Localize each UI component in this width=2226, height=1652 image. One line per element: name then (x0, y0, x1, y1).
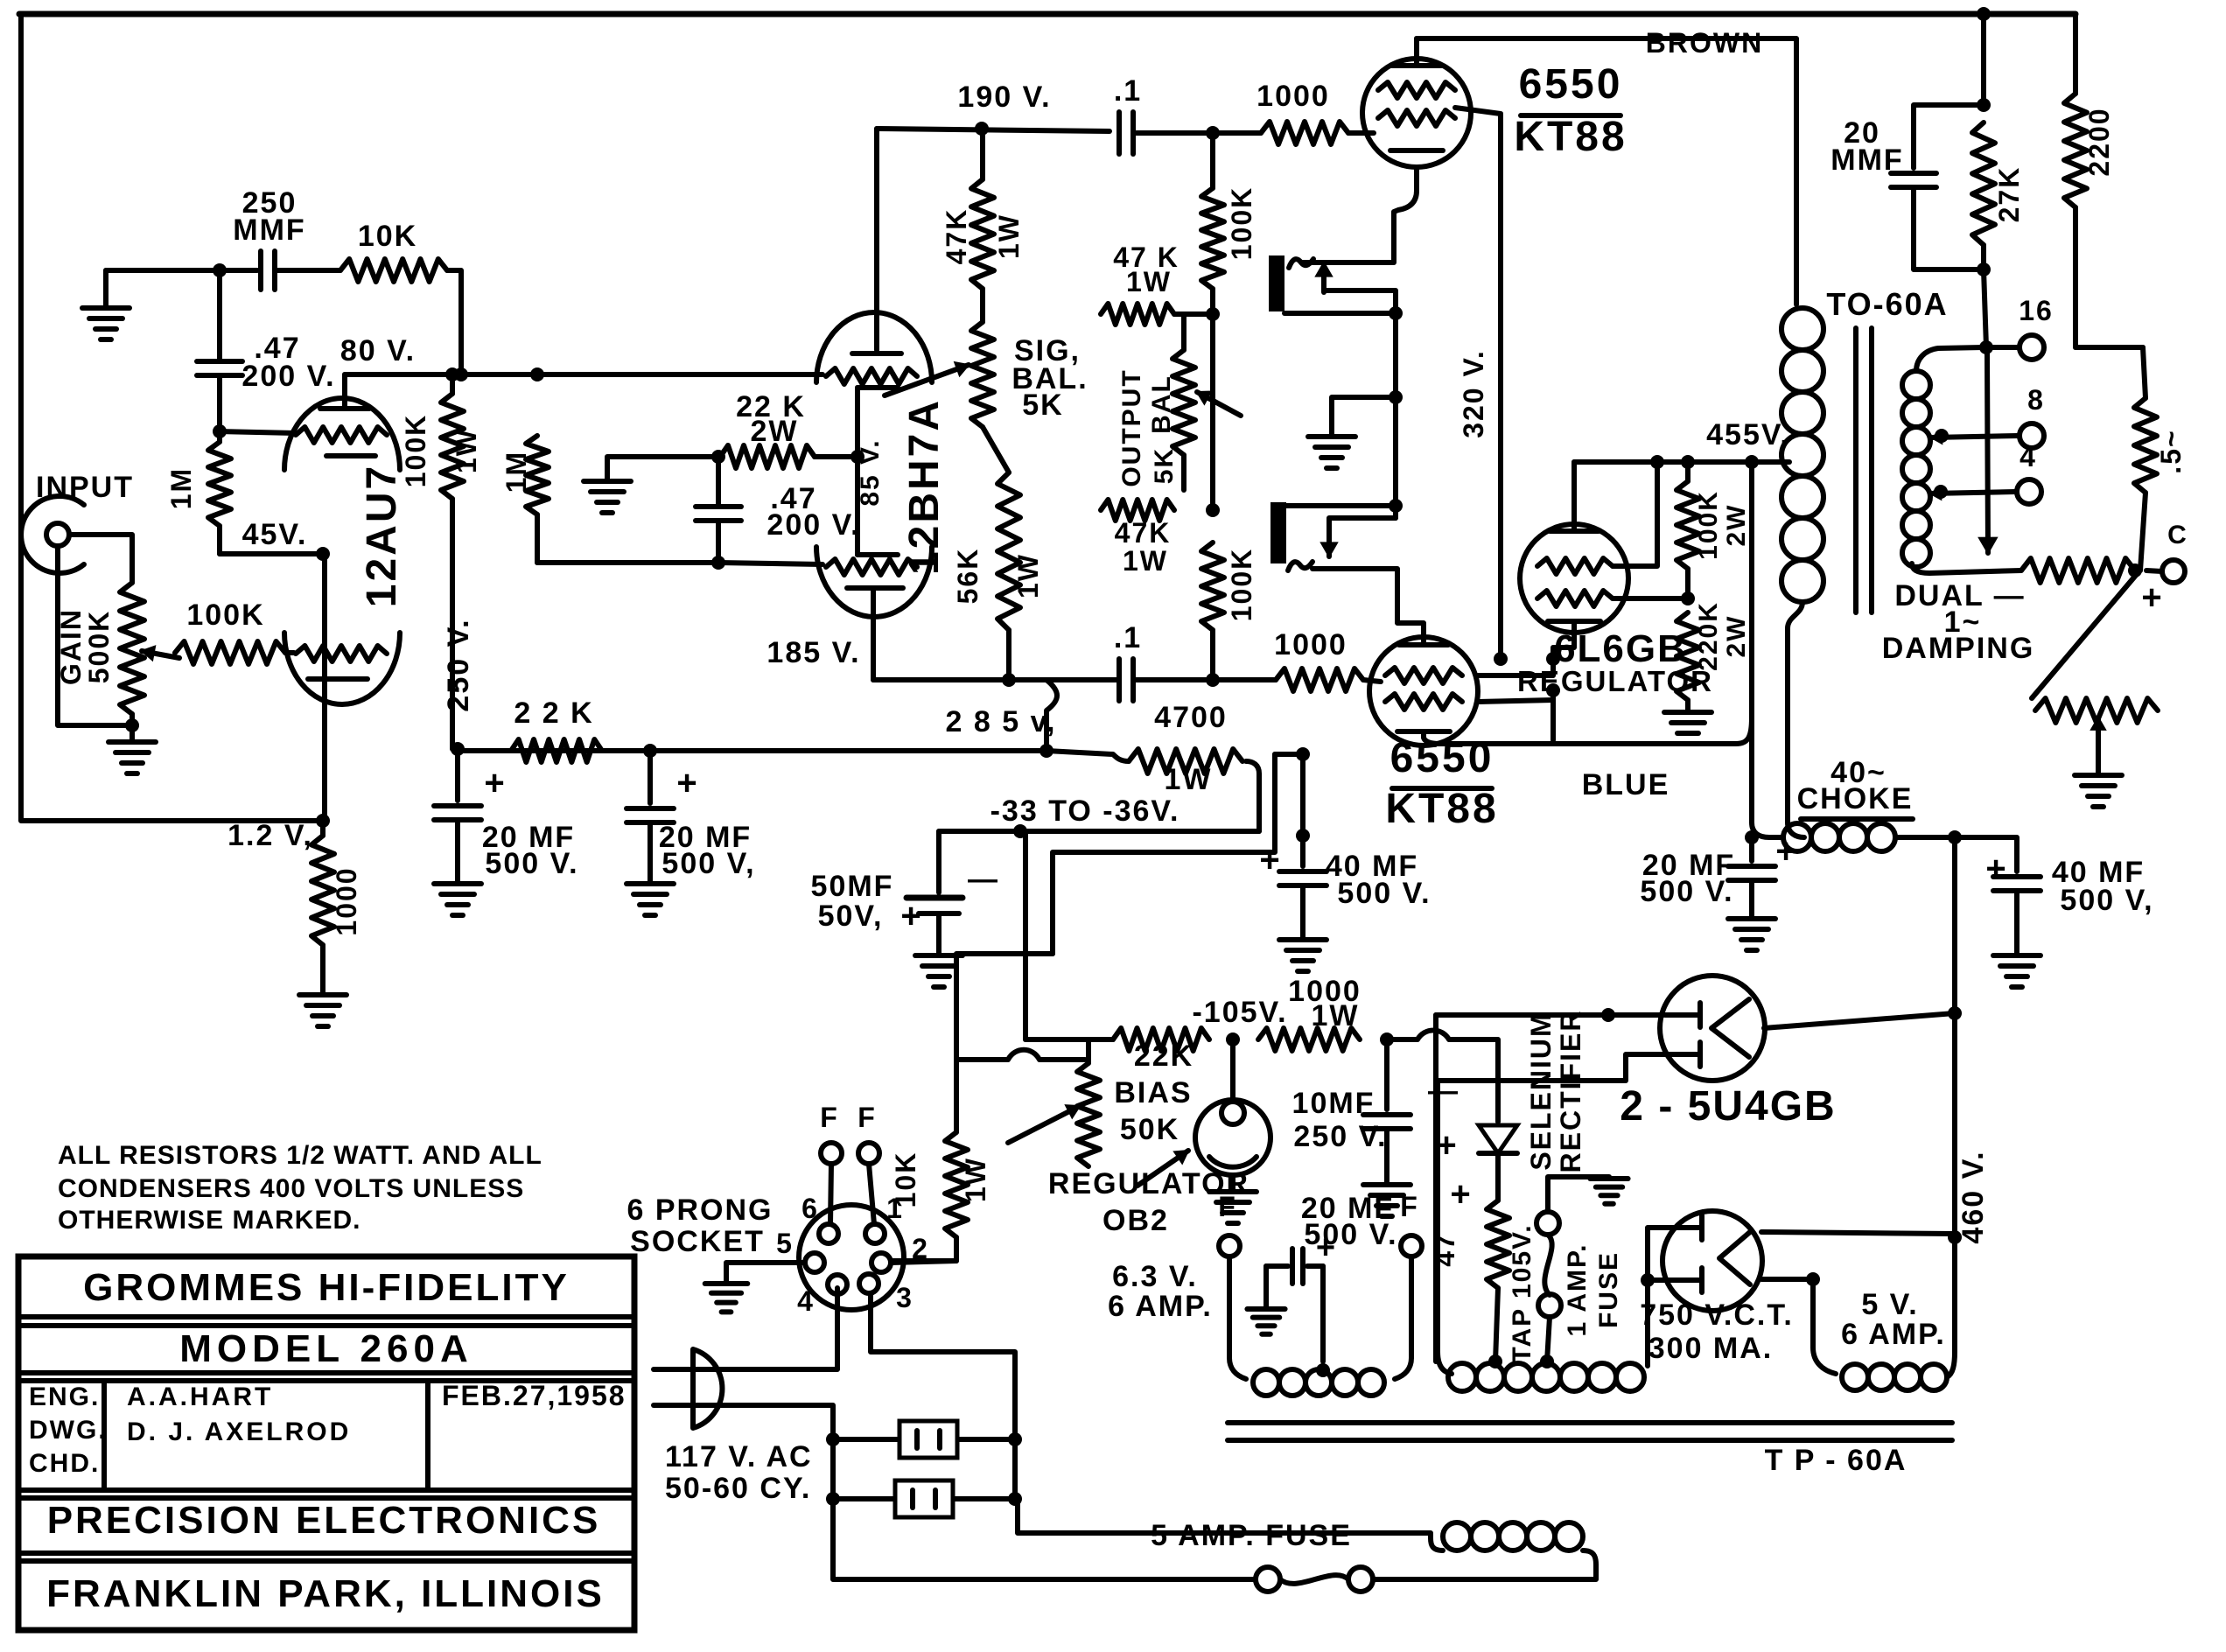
svg-text:1 AMP.: 1 AMP. (1563, 1242, 1592, 1336)
5U4a filament (1711, 999, 1749, 1057)
node 47K fb1 junction (1206, 307, 1220, 321)
tube 6550 lower envelope (1369, 637, 1478, 745)
capacitor 10MF 250V (1384, 1039, 1389, 1109)
plug prong top (654, 1367, 739, 1372)
svg-text:47K: 47K (941, 208, 972, 265)
tube OB2 regulator (1195, 1100, 1270, 1175)
svg-text:+: + (900, 897, 922, 935)
wire 27K to secondary (1984, 269, 1986, 347)
node 320V bottom (1494, 652, 1508, 666)
svg-text:CHOKE: CHOKE (1797, 782, 1914, 815)
wire tap 4 (1930, 492, 2015, 493)
ground OB2 (1209, 1189, 1256, 1194)
12AU7 upper plate (342, 378, 347, 407)
wire socket3 branch (871, 1293, 1015, 1439)
wire BROWN run (1417, 38, 1796, 304)
wire 5U4b filament to 5V (1761, 1277, 1813, 1282)
capacitor 250 MMF (258, 251, 263, 290)
node 6L6 screen (1681, 591, 1695, 605)
svg-text:T P - 60A: T P - 60A (1765, 1444, 1907, 1477)
ground mid xfrm (1308, 434, 1355, 439)
svg-text:50V,: 50V, (818, 899, 884, 933)
node 27K top (1977, 98, 1991, 112)
ground 22K (584, 479, 631, 484)
wire bias drop (1023, 831, 1028, 1039)
wire 10K corner (954, 1060, 959, 1132)
wire 20mmf top link (1914, 105, 1984, 168)
tube 12BH7A lower envelope (816, 547, 932, 617)
svg-text:.5~: .5~ (2155, 429, 2187, 473)
svg-text:RECTIFIER: RECTIFIER (1555, 1010, 1586, 1173)
resistor 22K bias (1113, 1028, 1209, 1051)
potentiometer BIAS 50K (1077, 1063, 1100, 1166)
node tap 4 (1934, 485, 1948, 499)
svg-text:500 V.: 500 V. (1337, 877, 1431, 910)
terminal 4 (2017, 479, 2041, 504)
wire cap to 10K (275, 268, 340, 273)
wire 22K bias lead (1025, 1037, 1113, 1042)
5U4b plate 1 (1667, 1225, 1702, 1230)
wire xfrm lower bar in (1286, 503, 1396, 508)
wire pin5 gnd (726, 1263, 805, 1282)
wire pin2 to 10K (891, 1261, 956, 1263)
svg-text:1000: 1000 (1274, 628, 1347, 661)
svg-text:5K: 5K (1022, 388, 1063, 422)
ground 40MF right (1993, 953, 2040, 958)
wire bias pot top (1086, 1039, 1091, 1063)
node 455V c (1745, 455, 1759, 469)
wire secondary bottom (1912, 563, 2021, 573)
svg-text:1000: 1000 (1256, 80, 1330, 113)
wire 285V run (458, 748, 1046, 753)
wire pot to 56K (983, 427, 1009, 472)
resistor 22K b+ (511, 739, 602, 762)
svg-text:D. J. AXELROD: D. J. AXELROD (127, 1417, 351, 1446)
svg-text:2 - 5U4GB: 2 - 5U4GB (1620, 1083, 1836, 1130)
wire 4700 s-right (1246, 761, 1259, 831)
svg-text:FUSE: FUSE (1594, 1251, 1623, 1328)
wire 47K to pot (980, 289, 985, 322)
svg-text:ALL RESISTORS 1/2 WATT. AND: ALL RESISTORS 1/2 WATT. AND ALL (58, 1141, 542, 1170)
svg-text:200 V.: 200 V. (766, 508, 860, 542)
wire 2200 bot (2073, 207, 2078, 347)
resistor 1M second (526, 436, 549, 514)
wire secondary bus (2075, 345, 2143, 350)
wire xfrm lower out (1312, 569, 1424, 641)
wire -105 to 5U4 (1436, 1012, 1608, 1018)
12BH7A cathode bracket (855, 388, 860, 555)
svg-text:OB2: OB2 (1102, 1204, 1169, 1237)
svg-text:500 V,: 500 V, (661, 847, 755, 880)
svg-text:250 V.: 250 V. (1293, 1120, 1387, 1153)
svg-text:GROMMES HI-FIDELITY: GROMMES HI-FIDELITY (83, 1266, 570, 1309)
wire plug bottom run (733, 1405, 833, 1579)
wire fuse to left (834, 1577, 1256, 1582)
svg-text:455V.: 455V. (1706, 418, 1790, 451)
svg-text:2W: 2W (751, 415, 799, 448)
bias pot wiper arrow (1008, 1106, 1080, 1143)
svg-text:F: F (1218, 1191, 1237, 1222)
wire 22K gnd run (607, 457, 718, 479)
node 460V bottom (1948, 1230, 1962, 1244)
svg-text:100K: 100K (1694, 490, 1723, 560)
svg-text:190 V.: 190 V. (957, 80, 1051, 114)
svg-text:1M: 1M (500, 451, 532, 493)
wire tap column (1433, 1015, 1438, 1361)
node 455V b (1681, 455, 1695, 469)
wire 250mmf run (106, 268, 257, 273)
wire 100K2W bot (1685, 569, 1690, 598)
svg-text:4: 4 (797, 1285, 815, 1317)
wire 6550l screen right (1478, 700, 1553, 702)
node 80V b (530, 367, 544, 381)
svg-text:.1: .1 (1114, 621, 1142, 654)
socket pin 3 (859, 1274, 878, 1293)
sig bal wiper arrow (885, 365, 969, 395)
damping lower wiper arrow (2096, 717, 2101, 770)
node 12AU7 cathode junction (316, 814, 330, 828)
ground 20MF first (434, 881, 481, 886)
capacitor 40MF 500V left (1279, 869, 1326, 874)
ground gain pot (129, 725, 135, 742)
node 6550l b (1546, 683, 1560, 697)
svg-text:1.2 V,: 1.2 V, (227, 819, 313, 852)
output transformer primary upper bar (1269, 255, 1284, 311)
svg-text:4: 4 (2019, 441, 2037, 472)
wire bias vert2 (956, 954, 1053, 1060)
node top bus junction (1977, 7, 1991, 21)
6L6 cathode bar (1548, 619, 1600, 624)
node 47b bottom (711, 556, 725, 570)
wire OB2 top (1230, 1039, 1235, 1102)
svg-text:1W: 1W (1126, 266, 1172, 297)
5U4b filament (1719, 1232, 1750, 1284)
ground 220K (1664, 710, 1711, 715)
transformer 750V winding (1448, 1363, 1476, 1391)
transformer 5V winding (1842, 1364, 1868, 1390)
wire primary right (1373, 1550, 1596, 1579)
svg-text:-105V.: -105V. (1192, 996, 1287, 1029)
svg-text:1000: 1000 (331, 866, 362, 935)
wire 6550l cathode stem (1421, 731, 1426, 738)
wire cap1 to grid res (1133, 130, 1261, 136)
svg-text:100K: 100K (400, 414, 431, 488)
svg-text:6.3 V.: 6.3 V. (1112, 1260, 1198, 1293)
choke label underline (1801, 816, 1913, 822)
wire 100K bias2 bot (1210, 630, 1215, 680)
ground fuse (1590, 1176, 1627, 1181)
wire fuse top (1548, 1177, 1609, 1212)
resistor 27K (1972, 122, 1995, 245)
wire 1M bottom (217, 526, 222, 554)
wire 250V run (450, 499, 455, 749)
svg-text:250 V.: 250 V. (442, 618, 475, 711)
svg-text:50MF: 50MF (811, 870, 894, 903)
diode selenium rectifier (1479, 1125, 1517, 1153)
node 190V (975, 122, 989, 136)
svg-text:12AU7: 12AU7 (359, 464, 405, 607)
title block box (18, 1256, 634, 1630)
node choke in (1745, 830, 1759, 844)
12AU7 lower plate bar (308, 676, 367, 682)
wire 220K bot (1685, 700, 1690, 710)
capacitor 20MF heater (1266, 1263, 1288, 1269)
fuse 1 amp (1536, 1212, 1559, 1235)
node fuse tap (1540, 1354, 1554, 1368)
wire 80V run (345, 372, 537, 377)
node 1M top junction (213, 424, 227, 438)
wire 1000 bottom (320, 945, 325, 993)
svg-text:460 V.: 460 V. (1956, 1150, 1990, 1243)
wire input hot (69, 535, 132, 583)
node 20MF2 junction (643, 744, 657, 758)
svg-text:8: 8 (2027, 384, 2045, 416)
ac plug (693, 1349, 722, 1428)
node damping right (2128, 563, 2142, 577)
wire 56K bottom (1006, 630, 1011, 680)
node heavy b (1296, 829, 1310, 843)
svg-text:1W: 1W (1123, 545, 1168, 577)
OB2 cathode arc (1209, 1157, 1256, 1167)
node 22K left (711, 450, 725, 464)
OB2 inner electrode (1221, 1102, 1244, 1124)
12AU7 upper grid (296, 427, 387, 443)
fuse 5 amp (1348, 1567, 1373, 1592)
tube 5U4 upper (1660, 976, 1765, 1081)
wire 27K branch vert (1981, 14, 1986, 105)
wire 6550l plates right (1478, 659, 1553, 675)
svg-text:185 V.: 185 V. (766, 636, 860, 669)
svg-text:SOCKET: SOCKET (630, 1225, 765, 1258)
potentiometer damping upper (2021, 558, 2135, 583)
terminal F2 (1401, 1235, 1422, 1256)
6550l label underline (1392, 786, 1492, 791)
svg-text:47K: 47K (1115, 517, 1172, 549)
resistor 1000 cathode (311, 836, 334, 945)
wire 100K bias1 top (1210, 133, 1215, 188)
node heater ct (1316, 1363, 1330, 1377)
6550u grid1 zigzag (1378, 82, 1455, 98)
capacitor 50MF 50V (936, 831, 941, 892)
node secondary top (1979, 340, 1993, 354)
svg-text:50-60 CY.: 50-60 CY. (665, 1472, 811, 1505)
node fusebox2 left (826, 1492, 840, 1506)
wire hv left riser (1438, 1054, 1665, 1374)
wire 185V run (873, 677, 1119, 682)
svg-text:+: + (1450, 1175, 1472, 1214)
gain pot wiper arrow (142, 651, 179, 658)
output transformer primary lower bar (1270, 502, 1286, 563)
svg-text:CHD.: CHD. (29, 1449, 100, 1478)
wire sec top to 16 (1986, 345, 2018, 350)
capacitor .47 200V input (197, 359, 242, 364)
node fusebox1 left (826, 1432, 840, 1446)
tube 12AU7 lower triode envelope (284, 633, 400, 704)
wire bias to selenium (1387, 1031, 1498, 1123)
ground input top (103, 270, 108, 308)
OB2 pointer arrow (1137, 1151, 1188, 1186)
wire OB2 bottom (1230, 1175, 1235, 1190)
socket pin 2 (871, 1253, 891, 1272)
svg-text:6550: 6550 (1519, 61, 1623, 108)
wire F term a (830, 1164, 831, 1224)
transformer core line a (1853, 328, 1858, 612)
node -33 a (1013, 824, 1027, 838)
wire 12AU7 plate stem (342, 374, 347, 378)
wire 5U4b plate riser (1648, 1228, 1667, 1366)
resistor 47 (1487, 1200, 1509, 1288)
wire 47K fb1 right (1174, 311, 1213, 317)
wire 45V run (220, 551, 323, 556)
wire g1 to tube (1348, 130, 1374, 136)
xfrm upper tap arrow (1321, 262, 1326, 292)
wire F1 down (1229, 1256, 1246, 1379)
wire F2 down (1395, 1256, 1411, 1379)
node gain pot bottom (125, 718, 139, 732)
wire selenium down (1495, 1153, 1501, 1200)
svg-text:2W: 2W (1722, 615, 1751, 658)
svg-text:TO-60A: TO-60A (1826, 286, 1948, 322)
wire 22K left (718, 454, 722, 459)
6550u cathode bar (1390, 148, 1443, 153)
6550l top bar (1399, 642, 1448, 647)
svg-text:F: F (1400, 1191, 1419, 1222)
svg-text:CONDENSERS 400 VOLTS UNLESS: CONDENSERS 400 VOLTS UNLESS (58, 1174, 524, 1203)
resistor 220K 2W (1676, 612, 1699, 700)
node 460V mid (1948, 1006, 1962, 1020)
svg-text:MODEL 260A: MODEL 260A (179, 1327, 473, 1370)
wire 47K top (980, 129, 985, 179)
node 5U4 plate junction (1601, 1008, 1615, 1022)
wire 5U4b down (1813, 1279, 1836, 1374)
6L6 grid zigzag (1537, 558, 1613, 574)
svg-text:100K: 100K (186, 598, 264, 632)
wire 22K right (815, 454, 857, 459)
socket pin 5 (805, 1253, 824, 1272)
terminal C (2162, 560, 2185, 583)
node fusebox2 right (1008, 1492, 1022, 1506)
12BH7A upper grid (826, 368, 917, 384)
wire choke left (1752, 822, 1783, 837)
terminal 8 (2019, 423, 2044, 448)
plug prong bottom (654, 1403, 733, 1408)
wire point5 bottom (2140, 493, 2145, 570)
svg-text:45V.: 45V. (242, 518, 308, 551)
terminal Fa (821, 1143, 842, 1164)
svg-text:27K: 27K (1993, 166, 2025, 223)
5U4b plate 2 (1667, 1277, 1702, 1283)
capacitor 40MF 500V right (1993, 874, 2040, 879)
svg-text:1W: 1W (993, 213, 1025, 259)
wire -33 bus (939, 829, 1259, 834)
wire secondary top (1916, 347, 1984, 371)
svg-text:4700: 4700 (1154, 701, 1228, 734)
potentiometer OUTPUT BAL 5K (1172, 350, 1195, 455)
node xfrm b (1389, 390, 1403, 404)
wire bias line2 (1053, 754, 1275, 954)
node 455V a (1650, 455, 1664, 469)
wire xfrm upper bar out (1284, 311, 1396, 316)
svg-text:500 V,: 500 V, (2060, 884, 2153, 917)
svg-text:3: 3 (896, 1282, 913, 1313)
wire 190V run (877, 129, 1109, 131)
wire xfrm gnd link (1332, 397, 1396, 435)
svg-text:TAP 105V.: TAP 105V. (1508, 1223, 1536, 1362)
svg-text:SELENIUM: SELENIUM (1525, 1011, 1557, 1170)
svg-text:6 AMP.: 6 AMP. (1108, 1290, 1213, 1323)
node lower grid junction (1206, 673, 1220, 687)
socket pin 6 (819, 1224, 838, 1243)
svg-text:GAIN: GAIN (55, 608, 87, 685)
node 47K fb2 junction (1206, 503, 1220, 517)
svg-text:-33 TO -36V.: -33 TO -36V. (990, 794, 1180, 828)
wire 5U4a cathode out (1764, 1013, 1955, 1028)
damping arrow down (1987, 353, 1988, 553)
svg-text:+: + (1259, 841, 1281, 879)
wire 6L6 grid right (1613, 462, 1657, 566)
svg-text:F: F (820, 1102, 839, 1133)
interlock fuse 1 (833, 1437, 1015, 1442)
wire 5U4b filament to 460V (1761, 1232, 1953, 1234)
node 250mmf left junction (213, 263, 227, 277)
input jack J1 (46, 523, 69, 546)
wire 12BH7A grid lower run (718, 563, 822, 564)
resistor .5 ohm (2143, 347, 2145, 398)
svg-text:2200: 2200 (2083, 107, 2115, 176)
wire F term b (869, 1164, 874, 1224)
resistor 22K 2W (720, 445, 815, 468)
capacitor .1 lower (1116, 659, 1122, 701)
wire 4700 left (1046, 751, 1129, 761)
transformer primary winding (1443, 1522, 1471, 1550)
node 45V junction (316, 547, 330, 561)
12BH7A upper plate (874, 297, 879, 350)
svg-text:MMF: MMF (233, 213, 305, 247)
svg-text:2 2 K: 2 2 K (514, 696, 593, 730)
wire plug top to socket (739, 1288, 837, 1369)
resistor 10K 1W (945, 1132, 968, 1237)
svg-text:+: + (484, 764, 506, 802)
svg-text:500 V.: 500 V. (485, 847, 578, 880)
svg-text:BLUE: BLUE (1582, 768, 1670, 801)
wire g2 to tube (1363, 680, 1381, 682)
svg-text:BIAS: BIAS (1114, 1076, 1192, 1109)
potentiometer SIG BAL 5K (971, 322, 994, 427)
transformer TO-60A secondary coil (1902, 371, 1930, 399)
wire 6L6 cathode (1553, 621, 1574, 659)
12BH7A lower grid (826, 559, 917, 575)
svg-text:F: F (857, 1102, 877, 1133)
6L6 top bar (1550, 528, 1599, 534)
svg-text:1: 1 (886, 1193, 904, 1224)
svg-text:10MF: 10MF (1292, 1087, 1375, 1120)
svg-text:ENG.: ENG. (29, 1382, 100, 1411)
svg-text:10K: 10K (358, 220, 417, 253)
xfrm upper bobbin squiggle (1289, 259, 1313, 268)
svg-text:100K: 100K (1226, 186, 1257, 261)
svg-text:OTHERWISE MARKED.: OTHERWISE MARKED. (58, 1206, 360, 1235)
resistor 56K 1W (997, 472, 1020, 630)
tube 12AU7 upper triode envelope (284, 398, 400, 470)
12BH7A lower plate (847, 585, 903, 591)
svg-text:80 V.: 80 V. (340, 334, 416, 367)
svg-text:6: 6 (801, 1193, 819, 1224)
wire 47b bottom (716, 521, 721, 563)
wire 100K1W top (450, 374, 455, 394)
wire 455V down run (1749, 462, 1754, 822)
terminal Fb (858, 1143, 879, 1164)
svg-text:5 AMP. FUSE: 5 AMP. FUSE (1151, 1519, 1352, 1552)
